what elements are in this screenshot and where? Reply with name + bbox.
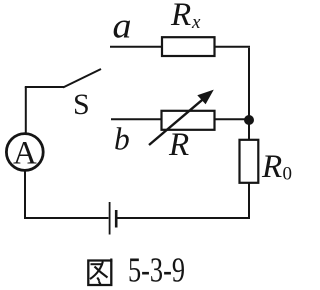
svg-text:b: b bbox=[114, 122, 130, 157]
rheostat R box bbox=[162, 111, 215, 130]
switch S blade bbox=[63, 69, 101, 88]
wire right vertical upper (node to top corner) bbox=[248, 48, 250, 120]
label R (rheostat) bbox=[168, 127, 189, 163]
caption glyph 图 outer box bbox=[88, 259, 112, 286]
caption text 5-3-9 bbox=[128, 251, 185, 290]
label b bbox=[114, 122, 130, 157]
label Rx bbox=[170, 0, 201, 33]
svg-text:5-3-9: 5-3-9 bbox=[128, 251, 185, 290]
svg-text:A: A bbox=[13, 136, 37, 172]
battery long plate (positive) bbox=[109, 202, 111, 235]
wire right vertical lower (corner to R0) bbox=[248, 183, 250, 219]
wire bottom right (battery to right corner) bbox=[118, 217, 251, 219]
svg-text:R: R bbox=[261, 149, 282, 185]
svg-text:R: R bbox=[170, 0, 191, 33]
resistor Rx box bbox=[162, 37, 215, 56]
label S bbox=[73, 88, 90, 121]
wire bottom left (corner to battery) bbox=[24, 217, 109, 219]
wire right vertical mid (R0 to node) bbox=[248, 120, 250, 140]
battery short plate (negative) bbox=[115, 210, 118, 228]
node junction dot bbox=[244, 115, 254, 125]
wire left vertical upper (switch to ammeter) bbox=[25, 87, 27, 133]
wire left vertical lower (ammeter to bottom) bbox=[24, 170, 26, 219]
svg-text:a: a bbox=[113, 6, 132, 46]
label R0 bbox=[261, 149, 292, 185]
svg-text:0: 0 bbox=[283, 164, 293, 185]
rheostat R arrow bbox=[149, 90, 214, 145]
label a bbox=[113, 6, 132, 46]
svg-text:x: x bbox=[191, 12, 201, 33]
svg-text:S: S bbox=[73, 88, 90, 121]
wire branch a lead bbox=[110, 46, 163, 48]
wire branch b lead bbox=[111, 118, 162, 120]
wire top right (Rx to corner) bbox=[214, 46, 250, 48]
caption glyph 图 inner strokes (冬) bbox=[90, 262, 108, 285]
ammeter A1 letter bbox=[13, 136, 37, 172]
svg-text:R: R bbox=[168, 127, 189, 163]
ammeter A1 circle bbox=[6, 134, 43, 171]
wire branch b right (R box to node) bbox=[214, 118, 249, 120]
resistor R0 box bbox=[240, 140, 259, 183]
wire switch horizontal bbox=[25, 86, 64, 88]
